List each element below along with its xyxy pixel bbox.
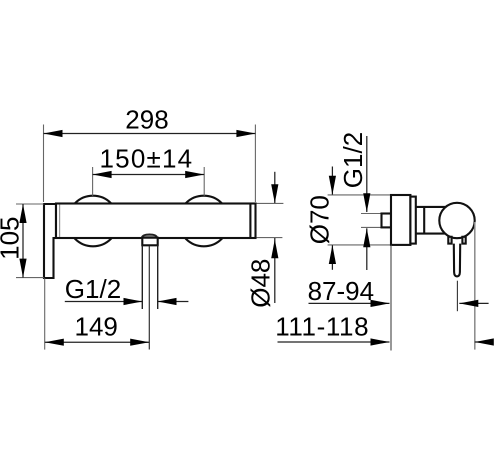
- svg-text:G1/2: G1/2: [338, 132, 368, 188]
- svg-text:111-118: 111-118: [275, 311, 369, 341]
- svg-text:Ø70: Ø70: [305, 195, 335, 244]
- svg-text:105: 105: [0, 217, 25, 260]
- svg-text:298: 298: [125, 104, 168, 134]
- svg-text:150±14: 150±14: [100, 144, 194, 174]
- svg-text:G1/2: G1/2: [65, 274, 121, 304]
- svg-text:149: 149: [75, 312, 118, 342]
- svg-text:Ø48: Ø48: [246, 259, 276, 308]
- svg-text:87-94: 87-94: [308, 276, 375, 306]
